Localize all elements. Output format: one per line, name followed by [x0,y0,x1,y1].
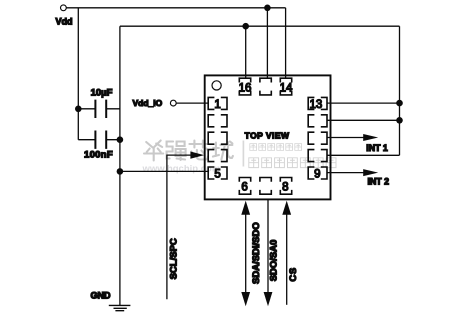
wire pin16 drop [245,26,247,79]
svg-text:Vdd: Vdd [56,17,73,27]
watermark slogan line 1 [250,144,302,151]
svg-text:TOP VIEW: TOP VIEW [245,130,290,140]
svg-text:14: 14 [280,83,293,95]
watermark slogan line 2 [249,158,336,168]
svg-text:SDO/SA0: SDO/SA0 [269,240,280,282]
svg-text:16: 16 [239,83,252,95]
svg-text:Vdd_IO: Vdd_IO [133,98,163,108]
op IC U1 body (top view) [205,75,331,199]
watermark logo text [144,141,233,161]
wire Vdd left vertical [77,8,79,140]
pin 2 pad [208,115,227,127]
node pin13 junction [396,100,403,107]
wire top horizontal rail [120,25,400,27]
pin 15 pad [260,78,271,95]
svg-text:GND: GND [91,291,112,301]
wire pin14 drop [285,8,287,79]
pin 5 pad [208,167,227,179]
IC pin1 orientation mark [212,81,221,90]
pin 11 pad [308,132,327,144]
capacitor C2 100nF [78,131,120,149]
wire Vdd_IO to pin1 [176,102,209,104]
wire right vertical [399,26,401,155]
wire INT 1 [327,134,378,141]
pin 6 pad [239,178,250,195]
svg-text:9: 9 [314,169,320,181]
pin 3 pad [208,132,227,144]
svg-text:10µF: 10µF [91,88,113,99]
wire pin13 [327,102,400,104]
wire Vdd rail [66,7,285,9]
wire pin15 drop [266,8,268,79]
svg-text:INT 2: INT 2 [368,176,390,186]
pin 9 pad [308,167,327,179]
node pin12 junction [396,117,403,124]
wire CS [282,201,291,305]
node pin5 branch junction [117,168,124,175]
wire pin12 [327,119,400,121]
pin 4 pad [208,150,227,162]
Vdd terminal [61,5,67,11]
capacitor C1 10uF [78,100,120,118]
Vdd_IO terminal [170,100,176,106]
svg-text:SCL/SPC: SCL/SPC [169,238,180,279]
svg-text:CS: CS [288,267,299,281]
wire INT 2 [327,169,378,176]
pin 14 pad [280,78,291,95]
svg-text:5: 5 [214,169,220,181]
watermark divider [242,141,244,167]
node C2 right junction [117,136,124,143]
node C1 left junction [75,106,82,113]
wire SDO/SA0 [264,199,273,306]
pin 7 pad [260,178,271,195]
svg-text:SDA/SDI/SDO: SDA/SDI/SDO [251,222,262,284]
pin 10 pad [308,150,327,162]
wire ground main vertical [119,26,121,305]
pin 16 pad [239,78,250,95]
svg-text:100nF: 100nF [84,150,113,161]
pin 1 pad [208,97,227,109]
wire SCL/SPC [167,152,204,300]
pin 8 pad [280,178,291,195]
node Vdd/pin15 junction [264,5,271,12]
ground symbol [109,305,131,310]
svg-text:INT 1: INT 1 [366,143,388,153]
pin 13 pad [308,97,327,109]
wire pin5 branch [120,170,209,172]
svg-text:1: 1 [214,99,220,111]
wire SDA/SDI/SDO (bidirectional) [241,201,250,307]
pin 12 pad [308,115,327,127]
node pin16 junction [242,23,249,30]
wire pin10 [327,154,400,156]
svg-text:8: 8 [282,182,288,194]
svg-text:13: 13 [310,99,323,111]
svg-text:6: 6 [241,182,247,194]
